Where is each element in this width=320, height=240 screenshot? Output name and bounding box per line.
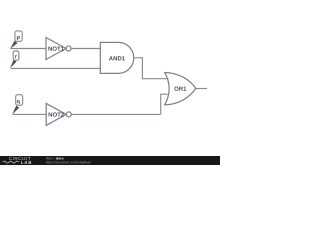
NOT gate NOT2 [46,103,71,125]
wire OR1 output [196,88,207,90]
wire NOT2 output to riser [71,113,160,115]
footer watermark bar [0,156,220,165]
wire node q to NOT2 input [13,113,47,115]
wire node r to AND1 input B [10,67,100,69]
NOT gate NOT1 [46,38,71,60]
OR gate OR1 [165,73,196,105]
wire node P to NOT1 input [10,48,46,50]
wire NOT1 output to AND1 input A [71,48,100,50]
wire AND1 output down to OR1 input A [134,58,169,79]
CircuitLab logo wave [3,161,19,163]
svg-text:LAB: LAB [21,160,33,165]
AND gate AND1 [100,42,133,73]
flag q [12,95,23,115]
flag P [10,31,22,49]
wire riser up to OR1 input B [161,94,168,114]
svg-text:http://circuitlab.com/c/kj8hah: http://circuitlab.com/c/kj8hah [46,161,91,165]
flag r [10,51,19,68]
